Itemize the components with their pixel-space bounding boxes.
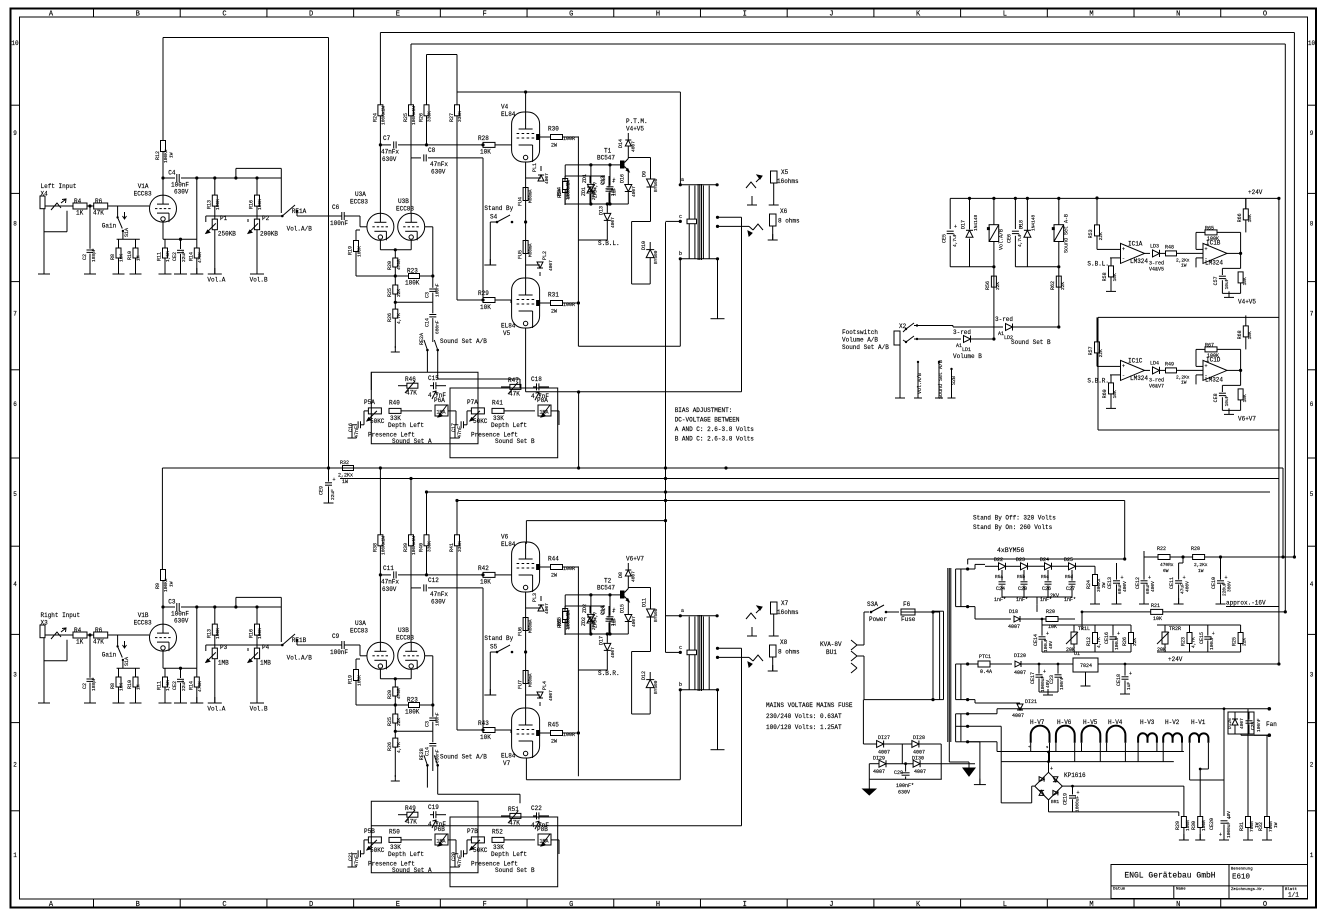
capacitor C23 100nF [1055,674,1062,676]
capacitor C20 1nF [1021,581,1028,583]
wire row1 verticals [901,744,903,764]
node c [666,220,681,222]
svg-text:c: c [679,214,682,220]
svg-text:LM324: LM324 [1130,258,1148,265]
svg-text:S1A: S1A [124,228,130,237]
svg-text:R20: R20 [1046,609,1055,615]
svg-text:4007: 4007 [1239,718,1245,729]
svg-text:22K: 22K [995,282,1001,290]
svg-text:Fuse: Fuse [901,616,916,623]
resistor R6 47K [94,203,108,209]
wire opamp supply stubs [1096,198,1098,225]
svg-text:R62: R62 [1050,281,1056,290]
triode U3B ECC83 [398,213,425,240]
svg-text:470K: 470K [197,681,203,692]
svg-text:100/120 Volts: 1.25AT: 100/120 Volts: 1.25AT [766,724,842,731]
svg-text:R24: R24 [372,113,378,122]
svg-text:P7A: P7A [467,399,478,406]
transformer mains secondary HT [955,569,957,607]
capacitor CE2 22uF [180,239,182,249]
resistor R30 100R 2W [540,136,550,138]
capacitor C8 47nFx 630V [410,116,412,158]
diode D18b 4007 [968,606,975,608]
svg-text:R25: R25 [387,288,393,297]
svg-text:R20: R20 [387,261,393,270]
svg-text:1000uF 40V: 1000uF 40V [1226,811,1232,838]
svg-text:Sound Set A: Sound Set A [392,867,432,874]
zener ZD2 ZPD4,7 [587,617,593,623]
svg-text:BR1: BR1 [1051,799,1059,805]
wire crossover rail 2 [340,478,1279,480]
svg-text:50KC: 50KC [473,418,488,425]
svg-text:R8: R8 [110,683,116,689]
switch S1A Gain [117,635,119,646]
svg-text:R14: R14 [188,252,194,261]
wire tone vertical [578,392,580,468]
wire trim row R [1157,624,1241,626]
svg-text:250KB: 250KB [218,231,236,238]
svg-text:Sound Set A: Sound Set A [392,438,432,445]
svg-text:LD3: LD3 [1150,243,1159,249]
diode D11 BY509 [650,588,652,610]
resistor PTC1 0.4A [968,663,978,665]
svg-text:C57: C57 [1213,276,1219,285]
svg-text:P6A: P6A [434,397,445,404]
wire R28 row to bus [1221,556,1284,558]
wire opamp inputs [1110,248,1121,250]
svg-text:R31: R31 [548,292,559,299]
svg-text:100Kx1W: 100Kx1W [411,106,417,125]
svg-text:ENGL Gerätebau GmbH: ENGL Gerätebau GmbH [1124,872,1215,881]
ground [394,775,396,781]
svg-text:R30: R30 [1191,821,1197,830]
wire U3B grid drop [425,226,433,228]
svg-text:R26: R26 [387,742,393,751]
ground [1110,402,1112,408]
svg-text:R24: R24 [1086,580,1092,589]
junction dots rails [724,466,727,469]
svg-text:U3B: U3B [398,627,409,634]
ground Vol.A [214,697,216,703]
svg-text:R13: R13 [206,200,212,209]
svg-text:10K: 10K [480,734,491,741]
resistor R68 10K pullup [1243,326,1248,337]
svg-text:4007: 4007 [1008,624,1020,630]
transformer output primary [688,617,690,690]
LED LD3 3-red [1145,252,1151,254]
svg-text:V6&V7: V6&V7 [1149,383,1164,389]
svg-text:TR1L: TR1L [1078,626,1090,632]
svg-text:Sound Set A-B: Sound Set A-B [1064,214,1070,253]
ground [454,861,456,867]
resistor R26 4,7K [393,309,398,318]
capacitor C13 1uF [607,186,614,188]
resistor R41 330K [455,535,460,546]
wire B+ vertical bus [328,38,330,469]
svg-text:188pF: 188pF [91,248,97,262]
wire opamp inputs [1110,365,1121,367]
svg-text:P7B: P7B [467,828,478,835]
svg-text:+: + [1129,671,1132,677]
svg-text:D9: D9 [642,171,648,177]
resistor R24 390Kx 2W [1093,575,1098,586]
wire bridge ac left [1032,785,1035,787]
svg-text:+: + [1205,363,1208,369]
svg-text:22K: 22K [1098,232,1104,240]
trimmer TR1L 20K [1071,632,1077,644]
transformer output core [697,184,699,260]
potentiometer P6A 1MA [435,405,448,416]
svg-text:CE14: CE14 [1033,634,1039,646]
svg-text:a: a [681,608,684,614]
wire R25 node [395,301,433,303]
svg-text:S1A: S1A [124,657,130,666]
svg-text:C8: C8 [428,147,436,154]
svg-text:100nF: 100nF [1256,718,1262,732]
svg-text:D15: D15 [619,604,625,613]
svg-text:4007: 4007 [548,690,554,701]
ground [489,259,491,265]
LED LD2 3-red Sound Set B [952,326,954,328]
svg-text:33K: 33K [390,844,401,851]
wire X2 ground [899,345,901,398]
svg-text:R23: R23 [407,268,418,275]
svg-text:R41: R41 [449,543,455,552]
svg-text:1W: 1W [1181,262,1187,268]
svg-text:Vol.B: Vol.B [250,277,268,284]
svg-text:D23: D23 [1016,557,1025,563]
ground [351,861,353,867]
svg-text:+: + [1148,575,1151,581]
svg-text:R12: R12 [1086,637,1092,646]
svg-text:s: s [1046,746,1049,750]
svg-text:DI30: DI30 [912,756,924,762]
ground [351,432,353,438]
svg-text:M80mA: M80mA [528,619,534,633]
wire T1 base rail [565,164,620,166]
svg-text:470K: 470K [197,252,203,263]
svg-text:ZD2: ZD2 [581,617,587,626]
svg-text:Zeichnungs-Nr.: Zeichnungs-Nr. [1231,887,1265,892]
svg-text:R39: R39 [403,543,409,552]
resistor R50 33K [389,837,401,842]
svg-text:O: O [1263,11,1267,19]
svg-text:R67: R67 [1205,342,1214,348]
svg-text:4007: 4007 [544,603,550,614]
svg-text:DI27: DI27 [878,735,890,741]
svg-text:Sound Set A/B: Sound Set A/B [842,344,889,351]
svg-text:H-V2: H-V2 [1165,719,1180,726]
wire R25 node [395,730,433,732]
svg-text:R48: R48 [1165,244,1174,250]
svg-text:C2: C2 [82,683,88,689]
svg-text:+: + [1077,790,1080,796]
svg-text:+: + [1117,631,1120,637]
resistor R56 22K [991,276,996,287]
svg-text:R43: R43 [478,720,489,727]
resistor R20 470R [393,687,398,696]
svg-text:100K: 100K [1207,353,1219,359]
svg-text:Sound Set B: Sound Set B [1011,339,1051,346]
svg-text:T2: T2 [604,578,612,585]
capacitor C21 47nF [357,850,359,857]
ground [717,313,719,319]
svg-text:D: D [309,11,313,19]
svg-text:R22: R22 [1157,546,1166,552]
wire standby rail top [968,558,1125,560]
svg-text:4xBYM56: 4xBYM56 [997,547,1024,554]
svg-text:400V: 400V [1150,581,1156,592]
capacitor C19 4,7nF [433,811,435,818]
svg-text:100K: 100K [1207,236,1219,242]
svg-text:RE2A: RE2A [419,333,425,345]
svg-text:100uF: 100uF [1209,636,1215,650]
svg-text:R10: R10 [127,251,133,260]
svg-text:47K: 47K [93,639,104,646]
svg-text:KP1616: KP1616 [1064,772,1086,779]
relay RE1B coil [989,225,999,242]
svg-text:I: I [743,901,747,909]
connector X3 input jack [40,625,45,638]
svg-text:Depth Left: Depth Left [388,851,424,858]
capacitor C26 1nF [1045,581,1052,583]
wire R19 junction [356,704,395,706]
svg-text:R65: R65 [1205,225,1214,231]
transformer mains primary [939,611,941,699]
triode V1B ECC83 [150,624,177,651]
svg-text:FU7: FU7 [518,680,524,689]
svg-text:330K: 330K [427,541,433,552]
svg-text:R21: R21 [1151,603,1160,609]
wire HT secondary tap [968,568,975,570]
op-amp IC1B LM324 [1203,243,1227,263]
fuse FU5 M80mA [523,241,528,254]
resistor R4 1K [73,632,87,638]
svg-text:CE2: CE2 [172,252,178,261]
svg-text:180K: 180K [405,709,420,716]
wire grid U3A [352,215,360,217]
wire plate supply box [457,91,680,93]
svg-text:M80mA: M80mA [528,243,534,257]
svg-text:BY509: BY509 [653,250,659,264]
resistor R28 10K [483,142,495,147]
pentode V5 EL84 [512,278,540,328]
svg-text:R42: R42 [478,565,489,572]
svg-text:330K: 330K [427,111,433,122]
svg-text:CE16: CE16 [1104,632,1110,644]
svg-text:-: - [1122,256,1125,262]
svg-text:1nF*: 1nF* [994,597,1006,603]
resistor R54 10K [1238,272,1243,283]
svg-text:R5a: R5a [995,574,1003,580]
capacitor C22 4,7nF [536,812,538,819]
resistor R9 100Kx [161,570,166,581]
svg-text:Depth Left: Depth Left [491,851,527,858]
svg-text:D: D [309,901,313,909]
svg-text:R51: R51 [508,806,519,813]
svg-text:J: J [829,901,833,909]
svg-text:X6: X6 [780,208,788,215]
resistor R53 22K [1095,225,1100,236]
wire rail stubs [379,33,381,105]
svg-text:630V: 630V [898,790,910,796]
svg-text:+: + [954,224,957,230]
diode D8 4007 [625,570,631,576]
svg-text:C14: C14 [424,318,430,327]
svg-text:CE2: CE2 [172,681,178,690]
diode DI28 4007 [912,741,919,748]
svg-text:CE9: CE9 [319,486,325,495]
ground [751,630,753,636]
wire heater legs [1030,743,1032,752]
svg-text:Gain: Gain [102,652,117,659]
node c [666,651,681,653]
capacitor CE5 4,7uF [947,230,954,232]
resistor R16 100K [255,624,260,635]
ground [772,234,774,240]
svg-text:RE2B: RE2B [419,748,425,760]
svg-text:M80mA: M80mA [528,189,534,203]
svg-text:2,2Kx: 2,2Kx [1194,562,1208,568]
wire cluster bottom rail [565,633,628,635]
wire wipers to relay [205,216,207,222]
ground [751,199,753,205]
svg-text:R14: R14 [188,681,194,690]
svg-text:BY509: BY509 [653,178,659,192]
svg-text:R19: R19 [348,675,354,684]
svg-text:C27: C27 [1066,586,1075,592]
wire wipers to relay [205,645,207,651]
svg-text:R60: R60 [1102,389,1108,398]
svg-text:LM324: LM324 [1130,375,1148,382]
svg-text:LM324: LM324 [1205,259,1223,266]
svg-text:R41: R41 [492,400,503,407]
wire CE20 top to rail [1223,707,1226,710]
capacitor C12 47nFx 630V [410,546,412,588]
svg-text:4007: 4007 [610,647,616,658]
resistor R55 10K [1238,389,1243,400]
svg-text:C26: C26 [1042,586,1051,592]
svg-text:8 ohms: 8 ohms [778,649,800,656]
svg-text:C12: C12 [428,577,439,584]
svg-text:DC-VOLTAGE BETWEEN: DC-VOLTAGE BETWEEN [675,417,740,424]
svg-text:4007: 4007 [610,217,616,228]
ground [180,268,182,274]
svg-text:C29: C29 [1250,722,1256,730]
svg-text:3: 3 [1310,671,1314,678]
svg-text:10: 10 [11,40,19,47]
wire output stage bottom rail [526,391,742,393]
jack X8 8 ohms [753,655,763,661]
wire standby caps bottom rail [1002,596,1072,598]
diode D14 4007 [625,140,631,146]
svg-text:R58: R58 [1102,272,1108,281]
svg-text:5: 5 [13,491,17,498]
svg-text:R5d: R5d [1065,574,1073,580]
wire mains to switch [857,644,864,646]
svg-text:R32: R32 [1258,822,1264,831]
svg-text:630V: 630V [382,156,397,163]
wire R26 to grid node [426,116,428,145]
svg-text:C3: C3 [424,721,430,727]
cathode bus [162,222,164,239]
svg-text:ECC83: ECC83 [350,628,368,635]
svg-text:1M: 1M [136,684,142,690]
svg-text:470R: 470R [396,259,402,270]
diode PL1 4007 [526,177,541,179]
svg-text:0.4A: 0.4A [980,669,992,675]
ground [118,268,120,274]
svg-text:V4+V5: V4+V5 [626,126,644,133]
svg-text:Right Input: Right Input [41,612,81,619]
svg-text:R53: R53 [1088,229,1094,238]
svg-text:R4: R4 [74,198,82,205]
svg-text:P8B: P8B [537,826,548,833]
svg-text:4,7K: 4,7K [396,313,402,324]
svg-text:4007: 4007 [631,571,637,582]
svg-text:P8A: P8A [537,397,548,404]
svg-text:R6: R6 [95,627,103,634]
svg-text:D24: D24 [1040,557,1049,563]
capacitor C6 100nF [341,212,343,220]
capacitor C13 1uF [606,188,613,190]
svg-text:R16: R16 [249,200,255,209]
svg-text:C6: C6 [332,204,340,211]
wire +24V relay rail [950,197,1279,199]
wire feedback tap [725,225,727,227]
svg-text:FU6: FU6 [518,627,524,636]
svg-text:47nF: 47nF [457,855,463,867]
capacitor CE18 1uF [1122,676,1129,678]
wire -16V vertical [1081,612,1083,630]
svg-text:TR2R: TR2R [1169,626,1181,632]
svg-text:BC547: BC547 [597,155,615,162]
svg-text:R31: R31 [1239,822,1245,831]
potentiometer P7B 50KC [471,837,484,843]
svg-text:4007: 4007 [1012,713,1024,719]
svg-text:ZD1: ZD1 [582,174,588,183]
capacitor C20 47nF [460,850,462,857]
wire U3B anode lead [410,158,412,213]
svg-text:CE10: CE10 [1211,577,1217,589]
svg-text:D11: D11 [642,598,648,607]
wire R19 junction [356,275,395,277]
capacitor CE10 220uF 380V [1217,580,1224,582]
diode D13 4007 [606,204,608,213]
svg-text:R9: R9 [155,583,161,589]
wire rail down to V1B anode [161,468,163,570]
svg-text:630V: 630V [174,618,189,625]
grounds filter caps [1094,598,1096,604]
diode D17 4007 [606,634,608,643]
svg-text:R23: R23 [407,697,418,704]
ground [1222,292,1240,294]
svg-text:N: N [1176,901,1180,909]
svg-text:100K: 100K [257,199,263,210]
wire block B box [1098,316,1279,318]
svg-text:CE6: CE6 [1007,234,1013,243]
resistor R22 470Rx 6W [1158,555,1170,560]
wire bridge dc out - [1048,800,1050,812]
wire heater top rail [997,708,1269,710]
svg-text:ECC83: ECC83 [396,635,414,642]
svg-text:22K: 22K [396,289,402,297]
svg-text:LD4: LD4 [1150,360,1159,366]
svg-text:DI29: DI29 [873,756,885,762]
resistor R49 2,2Kx 1W [1160,369,1166,371]
svg-text:D12: D12 [641,671,647,680]
svg-text:P.T.M.: P.T.M. [626,118,648,125]
